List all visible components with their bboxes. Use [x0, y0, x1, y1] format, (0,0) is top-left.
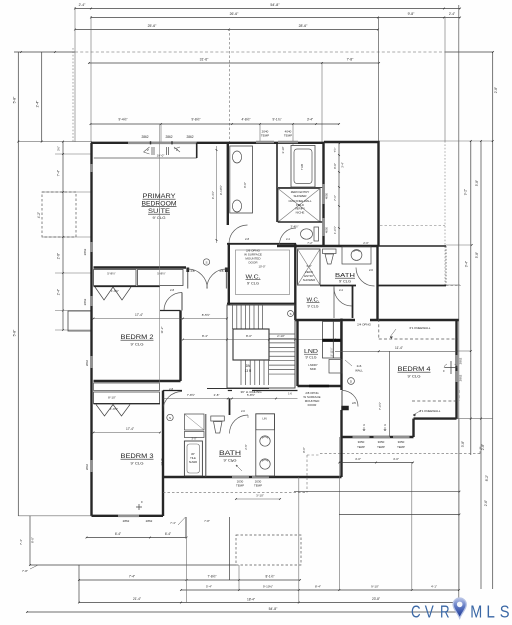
laundry sink	[329, 360, 342, 374]
svg-text:9' CLG: 9' CLG	[131, 343, 144, 347]
east wing walls (bath)	[379, 245, 447, 247]
bottom-left dims	[18, 515, 91, 517]
bedrm4 door arc	[342, 391, 358, 407]
stairwell outline	[227, 305, 295, 388]
svg-text:9'-8½": 9'-8½"	[191, 118, 200, 122]
bottom dim row 3	[79, 602, 459, 604]
dim line third row	[75, 29, 378, 31]
top wall window band	[128, 142, 197, 145]
svg-text:8'-0": 8'-0"	[302, 447, 306, 453]
stair landing rect	[233, 329, 269, 360]
dim ladder x=339	[338, 143, 340, 246]
linen column east wall	[205, 414, 207, 477]
bedrm4 dim line	[335, 350, 457, 352]
svg-text:7'-6½": 7'-6½"	[378, 402, 382, 410]
extension lines top	[74, 7, 76, 142]
svg-text:8'-0": 8'-0"	[333, 163, 337, 169]
tub room west wall	[276, 143, 278, 222]
svg-text:17'-4": 17'-4"	[135, 313, 143, 317]
svg-text:2862: 2862	[123, 519, 130, 523]
primary south wall	[94, 266, 187, 268]
svg-text:2862: 2862	[141, 135, 148, 139]
svg-text:3'-0": 3'-0"	[191, 437, 196, 441]
svg-text:11'-2": 11'-2"	[160, 327, 164, 334]
svg-text:7'-6": 7'-6"	[333, 195, 337, 201]
svg-text:2/6: 2/6	[352, 401, 356, 405]
svg-text:2-8: 2-8	[170, 288, 174, 292]
dim line 31-6 / 7-8	[89, 62, 379, 64]
svg-text:1'-6½": 1'-6½"	[111, 289, 119, 293]
svg-text:7'-4": 7'-4"	[129, 575, 135, 579]
closet bottom wall	[94, 286, 161, 288]
svg-text:F: F	[443, 369, 445, 373]
svg-text:8'-10": 8'-10"	[108, 396, 116, 400]
closet between bedrm2/3	[94, 383, 160, 391]
svg-text:23'-8": 23'-8"	[372, 597, 380, 601]
svg-text:6'-4": 6'-4"	[165, 532, 171, 536]
svg-text:2/4 OPNG: 2/4 OPNG	[357, 323, 372, 327]
svg-text:4'-0": 4'-0"	[355, 457, 361, 461]
zero entry shower 2	[298, 249, 321, 285]
bottom vertical extensions	[78, 565, 80, 603]
lnd west wall	[296, 320, 298, 386]
svg-text:7'-8½": 7'-8½"	[187, 393, 195, 397]
WC niche door arc	[280, 228, 297, 245]
svg-text:S: S	[205, 260, 207, 264]
double door arcs primary suite	[188, 269, 208, 289]
hall bath door arc	[230, 415, 249, 434]
bath2 door arc	[356, 268, 375, 287]
svg-text:9'-10½": 9'-10½"	[263, 585, 273, 589]
double door hinge stubs	[186, 268, 189, 273]
bath south wall	[277, 245, 379, 247]
svg-text:9' CLG: 9' CLG	[339, 280, 351, 284]
bay window seat dashed box	[42, 192, 76, 237]
svg-text:2-4: 2-4	[286, 237, 290, 241]
smoke detector hall	[288, 311, 294, 317]
svg-text:54'-8": 54'-8"	[270, 3, 280, 7]
svg-text:2'-8": 2'-8"	[57, 253, 61, 259]
svg-text:3½": 3½"	[57, 146, 61, 151]
svg-text:7'-4": 7'-4"	[19, 539, 23, 545]
svg-text:4'-8½": 4'-8½"	[241, 118, 250, 122]
logo pin	[453, 598, 466, 618]
casement swing symbols	[144, 147, 150, 154]
svg-text:3'-0": 3'-0"	[306, 264, 311, 268]
svg-text:SHWR: SHWR	[189, 460, 197, 464]
svg-text:SHOWER: SHOWER	[303, 278, 316, 282]
svg-text:5'-8": 5'-8"	[13, 329, 17, 337]
attic dashed line east wing	[380, 225, 445, 227]
bedrm2 south wall	[94, 380, 181, 382]
exterior wall top	[91, 142, 324, 144]
dim 3-10 under bath	[236, 498, 280, 500]
roof overhang dashed bedrm4	[320, 453, 480, 455]
svg-text:9'-10½": 9'-10½"	[219, 185, 223, 195]
bedrm2 dim line	[94, 318, 228, 320]
svg-text:5'-8": 5'-8"	[13, 96, 17, 104]
svg-text:7'-4": 7'-4"	[57, 170, 61, 176]
svg-text:1'-6½": 1'-6½"	[110, 407, 118, 411]
svg-text:SHOWER: SHOWER	[293, 194, 306, 198]
left dim lines	[17, 52, 19, 516]
svg-text:2'-8": 2'-8"	[214, 393, 220, 397]
svg-text:2x6: 2x6	[357, 364, 362, 368]
lnd south wall	[298, 385, 342, 387]
setback dashed line	[14, 51, 75, 53]
svg-text:2862: 2862	[85, 463, 89, 470]
svg-text:4'-2": 4'-2"	[37, 212, 41, 218]
svg-text:2862: 2862	[459, 374, 463, 381]
ceiling fan bedrm4	[445, 361, 458, 374]
svg-text:3050: 3050	[358, 440, 365, 444]
svg-text:3'-4": 3'-4"	[341, 162, 345, 168]
svg-text:3050: 3050	[378, 440, 385, 444]
east wall of tub/shower with windows	[322, 143, 324, 246]
svg-text:2'-6": 2'-6"	[484, 500, 488, 506]
svg-text:9'-2": 9'-2"	[464, 189, 468, 195]
stair dim line	[183, 339, 335, 341]
bedrm3 dim	[94, 432, 161, 434]
svg-text:28'-6": 28'-6"	[299, 24, 308, 28]
wc door arc	[334, 288, 352, 306]
svg-text:3'-10": 3'-10"	[281, 147, 285, 154]
svg-text:9' CLG: 9' CLG	[308, 305, 320, 309]
svg-text:9'-1¾": 9'-1¾"	[272, 118, 281, 122]
stair treads upper	[232, 305, 234, 329]
bottom dim row 1	[79, 579, 300, 581]
svg-text:9'-4½": 9'-4½"	[118, 118, 127, 122]
WIC shelf inner rect	[236, 250, 290, 295]
svg-text:8'-0": 8'-0"	[31, 537, 35, 543]
svg-text:7'-8½": 7'-8½"	[207, 575, 216, 579]
window seat box 2	[68, 311, 92, 331]
svg-text:R: R	[440, 602, 450, 622]
svg-text:18'-4": 18'-4"	[247, 598, 255, 602]
svg-text:4'-1": 4'-1"	[431, 585, 437, 589]
wall jog / door header bedroom4	[342, 406, 349, 410]
vanity sink 2	[232, 200, 241, 212]
svg-text:S: S	[290, 312, 292, 316]
svg-text:M: M	[470, 602, 482, 622]
svg-text:6'-4": 6'-4"	[115, 532, 121, 536]
svg-text:5'-8½": 5'-8½"	[107, 272, 115, 276]
bedroom4 east wall	[455, 320, 457, 419]
right bottom rungs	[294, 491, 459, 493]
svg-text:8'-5½": 8'-5½"	[202, 313, 210, 317]
bottom overall dim	[27, 611, 460, 613]
svg-text:7'-2": 7'-2"	[307, 241, 313, 245]
exterior wall right upper (x=378.5)	[377, 141, 379, 246]
svg-text:11'-4": 11'-4"	[395, 346, 403, 350]
dim line second row	[91, 17, 460, 19]
smoke detector circle	[203, 259, 209, 265]
svg-text:17'-4": 17'-4"	[126, 427, 134, 431]
svg-text:7'-8": 7'-8"	[347, 58, 355, 62]
bedrm3 door leaf	[162, 392, 164, 411]
svg-text:4": 4"	[232, 459, 234, 463]
svg-text:2862: 2862	[83, 248, 87, 255]
svg-text:9'-10": 9'-10"	[371, 585, 379, 589]
bedrm3 top wall	[94, 403, 161, 405]
left wall windows	[90, 164, 93, 172]
svg-text:F: F	[141, 500, 143, 504]
vanity hall bath	[256, 414, 275, 476]
svg-text:10'-0": 10'-0"	[258, 265, 265, 269]
svg-text:2'-4": 2'-4"	[449, 12, 455, 16]
svg-text:21'-4": 21'-4"	[133, 597, 141, 601]
svg-text:2'-4": 2'-4"	[79, 3, 87, 7]
bath west wall x=227.8	[227, 143, 229, 225]
svg-text:25'-6": 25'-6"	[148, 24, 157, 28]
svg-text:2862: 2862	[85, 359, 89, 366]
svg-text:2'-8": 2'-8"	[494, 87, 498, 93]
west wall of bath block	[162, 391, 164, 517]
svg-text:9' CLG: 9' CLG	[408, 375, 421, 379]
svg-text:3050: 3050	[398, 440, 405, 444]
stair treads right side	[269, 333, 295, 335]
divider x=334	[333, 286, 335, 318]
svg-text:TUB: TUB	[300, 164, 304, 170]
tile shower hall bath	[184, 441, 202, 476]
svg-text:DOOR: DOOR	[249, 261, 259, 265]
svg-text:2862: 2862	[186, 135, 193, 139]
bedrm2 right wall	[179, 311, 181, 382]
svg-text:3'-4½": 3'-4½"	[291, 225, 299, 229]
svg-text:4'-0": 4'-0"	[393, 457, 399, 461]
svg-text:TEMP: TEMP	[377, 445, 385, 449]
bottom dim row 2	[181, 589, 459, 591]
bedrm4 closet line	[389, 351, 391, 437]
svg-text:9' CLG: 9' CLG	[247, 282, 259, 286]
svg-text:9' CLG: 9' CLG	[224, 459, 237, 463]
svg-text:9' CLG: 9' CLG	[131, 462, 144, 466]
svg-text:54'-8": 54'-8"	[269, 607, 278, 611]
svg-text:WALL: WALL	[355, 369, 363, 373]
svg-text:S: S	[500, 602, 510, 622]
svg-text:2/8: 2/8	[191, 269, 195, 273]
bedroom4 windows east	[455, 355, 458, 366]
tub	[291, 146, 315, 188]
svg-text:2'-4": 2'-4"	[36, 100, 40, 108]
svg-text:TEMP: TEMP	[397, 445, 405, 449]
kneewall dashed lower	[412, 400, 459, 402]
bedrm4 bottom dim 4-0 4-0	[339, 462, 413, 464]
zero entry shower (primary)	[278, 189, 320, 223]
WC niche toilet (primary)	[314, 227, 319, 241]
svg-text:2-8: 2-8	[245, 237, 249, 241]
bath south windows	[232, 476, 249, 479]
svg-text:9'-4½": 9'-4½"	[211, 191, 215, 199]
exterior left wall	[90, 143, 92, 516]
svg-text:7½": 7½"	[333, 148, 337, 153]
linen boxes	[184, 414, 204, 430]
dim 6-4 6-4 row	[87, 537, 187, 539]
svg-text:4050: 4050	[325, 226, 329, 233]
svg-text:7'-8": 7'-8"	[204, 519, 210, 523]
svg-text:2/8: 2/8	[220, 269, 224, 273]
svg-text:13'-2": 13'-2"	[160, 458, 164, 465]
svg-text:S: S	[169, 416, 171, 420]
svg-text:8'-0": 8'-0"	[246, 334, 252, 338]
svg-text:10'-0": 10'-0"	[157, 154, 165, 158]
svg-text:5'-8": 5'-8"	[475, 252, 479, 258]
ceiling fan mark F	[136, 504, 142, 510]
long extension x=159	[158, 124, 160, 390]
svg-text:3'-4": 3'-4"	[307, 118, 313, 122]
svg-text:7'-8": 7'-8"	[22, 569, 28, 573]
svg-text:2'-5": 2'-5"	[244, 444, 248, 449]
svg-text:2'-0": 2'-0"	[363, 241, 369, 245]
svg-text:9' CLG: 9' CLG	[306, 356, 318, 360]
tub/shower divider	[278, 187, 324, 189]
closet row under primary	[94, 270, 137, 286]
svg-text:8'-4": 8'-4"	[315, 585, 321, 589]
svg-text:2'-10": 2'-10"	[277, 334, 285, 338]
svg-text:26'-6": 26'-6"	[230, 12, 239, 16]
WIC walls	[227, 243, 296, 245]
svg-text:5'-8½": 5'-8½"	[247, 393, 255, 397]
svg-text:TILE: TILE	[190, 456, 196, 460]
bath block south wall	[163, 476, 342, 478]
svg-text:2-4: 2-4	[339, 288, 343, 292]
svg-text:4050: 4050	[325, 192, 329, 199]
svg-text:TEMP: TEMP	[261, 134, 269, 138]
svg-text:9'-8": 9'-8"	[408, 12, 416, 16]
smoke detector bedrm3	[167, 414, 173, 420]
porch dashed rect	[236, 535, 301, 565]
hall bath entry stub	[229, 399, 231, 416]
svg-text:SINK: SINK	[310, 367, 317, 371]
svg-text:3'-4": 3'-4"	[465, 261, 469, 267]
svg-text:2862: 2862	[146, 519, 153, 523]
svg-text:TEMP: TEMP	[357, 445, 365, 449]
svg-text:LIN: LIN	[262, 417, 266, 421]
laundry column	[323, 322, 341, 359]
toilet bath2	[323, 249, 337, 254]
svg-text:5'-4": 5'-4"	[206, 585, 212, 589]
svg-text:5'-11½": 5'-11½"	[330, 348, 334, 357]
svg-text:1'-6½": 1'-6½"	[333, 226, 337, 234]
svg-text:TEMP: TEMP	[284, 134, 292, 138]
dim row above top wall	[91, 123, 340, 125]
svg-text:2862: 2862	[83, 298, 87, 305]
svg-text:V: V	[425, 602, 434, 622]
bifold closet doors	[95, 287, 131, 300]
svg-text:6'1 KNEEWALL: 6'1 KNEEWALL	[420, 409, 441, 413]
vestibule stub wall	[196, 143, 198, 158]
right dim verticals	[470, 141, 472, 455]
bedroom4 south windows	[353, 436, 370, 439]
vanity counter	[230, 146, 253, 213]
sink counter bath2	[342, 247, 371, 265]
wall below shower	[278, 221, 324, 223]
svg-text:C: C	[411, 602, 421, 622]
bedroom4 west wall	[340, 319, 342, 391]
bedrm2 door arc	[164, 293, 182, 311]
bifold bedrm3 closet	[96, 405, 130, 417]
svg-text:13 R: 13 R	[245, 369, 252, 373]
svg-text:31'-6": 31'-6"	[200, 58, 209, 62]
svg-text:6'1 KNEEWALL: 6'1 KNEEWALL	[410, 326, 431, 330]
wall y=320 with opening	[295, 319, 355, 321]
svg-text:8'-0": 8'-0"	[243, 182, 247, 188]
railing	[207, 388, 269, 390]
svg-text:NICHE: NICHE	[296, 210, 305, 214]
svg-text:2862: 2862	[165, 135, 172, 139]
svg-text:2862: 2862	[459, 357, 463, 364]
svg-text:2-6: 2-6	[369, 268, 373, 272]
svg-text:5'-8": 5'-8"	[475, 180, 479, 186]
dim line overall width 54-8	[75, 8, 460, 10]
bedrm3 door arc	[163, 392, 182, 411]
stair treads lower	[240, 360, 242, 385]
kneewall dashed upper	[379, 338, 458, 340]
svg-text:7'-4": 7'-4"	[170, 521, 176, 525]
hall south wall pieces	[163, 390, 182, 392]
svg-text:5'-8½": 5'-8½"	[157, 272, 165, 276]
svg-text:3'-8": 3'-8"	[461, 441, 465, 447]
svg-text:2'-4": 2'-4"	[57, 289, 61, 295]
roof dashed line below bath	[163, 492, 307, 494]
svg-text:8'-2": 8'-2"	[485, 475, 489, 481]
svg-text:TEMP: TEMP	[236, 484, 244, 488]
svg-text:DN: DN	[246, 364, 251, 368]
svg-text:2-6: 2-6	[241, 409, 245, 413]
door arc into bath corridor	[229, 225, 248, 244]
svg-text:36": 36"	[191, 452, 195, 456]
vanity sink 1	[232, 151, 241, 163]
svg-text:L: L	[486, 602, 495, 622]
door circle D	[348, 378, 355, 385]
svg-text:8'-4": 8'-4"	[202, 334, 208, 338]
svg-text:8'-1½": 8'-1½"	[265, 575, 274, 579]
wc room walls	[352, 286, 354, 319]
hall bath toilet	[211, 416, 225, 421]
svg-text:TEMP: TEMP	[254, 484, 262, 488]
svg-text:DOOR: DOOR	[308, 403, 317, 407]
tub windows	[256, 141, 274, 144]
svg-text:1-6: 1-6	[288, 392, 292, 396]
bedrm3 south wall	[92, 515, 164, 517]
bedroom4 south-east walls	[414, 417, 457, 419]
hall bath dim row	[163, 398, 298, 400]
svg-text:2'-8": 2'-8"	[481, 444, 485, 450]
svg-text:3'-10": 3'-10"	[256, 494, 264, 498]
inner sill line	[94, 157, 197, 159]
